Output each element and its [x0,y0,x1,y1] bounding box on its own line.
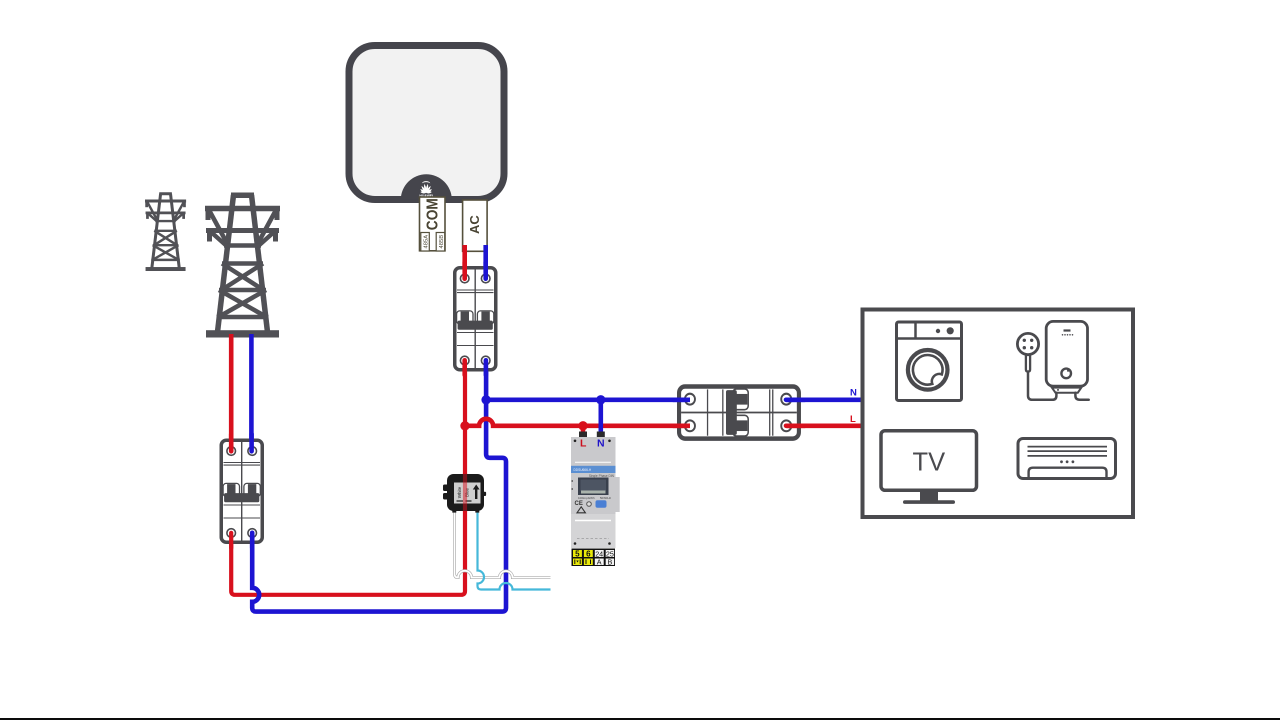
transmission tower (large, grid source) [205,195,280,338]
svg-text:White: White [457,486,462,498]
energy meter U1 (Huawei DDSU666-H) [571,437,620,566]
current transformer CT1 on L wire [443,473,486,513]
svg-text:A: A [597,557,602,566]
svg-text:485A: 485A [423,235,429,249]
wire N stub (blue) node N2 to meter pin N [598,400,603,435]
TV icon [881,431,977,504]
meter L terminal clamp [579,432,587,438]
wire L stub (red) node L2 to meter pin L [581,426,586,435]
wire L (red) breaker Q2 bottom, down-right-up through CT to breaker Q1 bottom [231,361,465,595]
svg-text:B: B [608,557,613,566]
wire N bus (blue) node N1 to breaker Q3 left, hop-free [486,397,690,402]
wire N (blue) grid tower to breaker Q2 top [249,334,254,451]
Huawei logo [419,181,433,198]
wire L (red) AC tab to breaker Q1 top [462,245,467,279]
wire L bus (red) node L1 to breaker Q3 left with hop over N wire [465,419,690,426]
svg-text:N: N [597,438,605,450]
CT signal wire (light blue) to meter pin 25 [478,509,551,590]
svg-text:DDSU666-H: DDSU666-H [574,468,592,472]
svg-text:Single Phase DIN: Single Phase DIN [589,474,615,478]
junction node L2 (meter L tap) [578,421,587,430]
svg-text:5: 5 [575,550,580,559]
svg-text:50/60Hz: 50/60Hz [600,496,612,500]
air conditioner icon [1018,439,1116,479]
junction node N2 (meter N tap) [596,395,605,404]
household loads box [863,310,1134,518]
circuit breaker Q1 (2-pole, EV charger branch) with wire tips in terminals [455,268,496,370]
wire N (blue) breaker Q3 right to house entry [787,397,864,402]
wire L (red) passing through CT1 window [463,473,467,512]
junction node N1 [481,395,490,404]
COM port tab with pins 485A / 485B [420,197,446,251]
water heater icon [1017,321,1088,399]
bottom border line (decor) [0,718,1280,720]
junction node L1 [460,421,469,430]
svg-text:L: L [850,414,856,425]
wire N (blue) breaker Q2 bottom, hop over L wire, down-right-up to breaker Q1 bottom [252,361,506,612]
CT signal wire (white) to meter pin 24 [455,509,551,578]
washing machine icon [897,322,962,401]
circuit breaker Q2 (2-pole, grid main) with wire tips in terminals [221,440,262,542]
AC port tab [463,200,488,251]
svg-text:CE: CE [575,501,583,507]
wire N (blue) AC tab to breaker Q1 top [483,245,488,279]
svg-text:485B: 485B [439,235,445,249]
EV charger wallbox (Huawei) [349,46,504,200]
svg-text:AC: AC [467,215,482,234]
svg-text:L: L [580,438,587,450]
transmission tower (small, background) [145,194,186,271]
meter N terminal clamp [597,432,605,438]
svg-text:100imp/kWh: 100imp/kWh [578,496,595,500]
svg-text:6: 6 [586,550,591,559]
meter terminal labels: pins 5 6 24 25 / A B [572,549,616,567]
wire L (red) grid tower to breaker Q2 top [229,334,234,451]
wire L (red) breaker Q3 right to house entry [787,423,864,428]
svg-text:TV: TV [913,449,946,477]
svg-text:N: N [850,388,857,399]
circuit breaker Q3 (2-pole, house branch, horizontal) with wire tips in terminals [679,387,799,439]
svg-text:COM: COM [425,198,442,230]
